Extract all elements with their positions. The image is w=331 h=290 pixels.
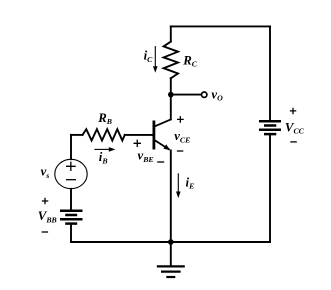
wire VBB bottom lead: [70, 225, 72, 242]
polarity plus vBE: [134, 140, 142, 147]
wire right rail lower: [269, 135, 271, 242]
polarity plus VBB: [42, 198, 49, 205]
ground: [157, 266, 185, 277]
svg-text:vCE: vCE: [174, 129, 190, 144]
transistor emitter arrowhead: [163, 144, 170, 150]
resistor RB: [83, 129, 125, 140]
node emitter/ground junction: [168, 239, 174, 245]
polarity plus vCE: [177, 116, 184, 123]
svg-text:vs: vs: [41, 165, 50, 180]
svg-text:RC: RC: [182, 53, 198, 68]
svg-text:iE: iE: [186, 175, 195, 190]
wire emitter vertical: [170, 150, 172, 242]
source vs minus: [66, 179, 76, 181]
svg-text:RB: RB: [97, 111, 112, 126]
wire vs top lead: [70, 135, 72, 159]
source vs plus: [66, 162, 76, 171]
transistor emitter diagonal: [155, 140, 170, 150]
svg-text:iB: iB: [99, 150, 108, 165]
node vO terminal: [202, 92, 207, 97]
svg-text:iC: iC: [144, 49, 154, 65]
battery VCC: [259, 121, 281, 134]
source vs circle: [55, 159, 87, 188]
wire vs bottom lead: [70, 189, 72, 210]
wire collector vertical: [170, 78, 172, 119]
transistor Q1: [154, 119, 172, 150]
transistor collector diagonal: [155, 119, 172, 126]
polarity minus vBE: [157, 161, 164, 163]
polarity minus VCC: [290, 141, 297, 143]
wire right rail upper: [269, 26, 271, 120]
wire collector branch top: [170, 26, 172, 41]
wire ground stub: [170, 242, 172, 265]
svg-text:VBB: VBB: [38, 209, 57, 224]
svg-text:vBE: vBE: [138, 149, 154, 164]
svg-text:VCC: VCC: [285, 120, 305, 135]
wire bottom rail: [71, 241, 270, 243]
svg-text:vO: vO: [211, 87, 223, 102]
polarity minus VBB: [42, 231, 49, 233]
polarity plus VCC: [290, 108, 297, 115]
resistor RC: [164, 42, 178, 79]
transistor base bar: [152, 121, 155, 150]
polarity minus vCE: [177, 150, 183, 152]
current arrow iB: [94, 147, 115, 152]
wire base lead right: [125, 134, 153, 136]
node collector/output junction: [168, 92, 174, 98]
current arrow iE: [176, 173, 181, 198]
battery VBB: [60, 211, 83, 224]
wire output tap: [171, 94, 202, 96]
wire base lead left: [71, 134, 83, 136]
wire top rail: [171, 25, 270, 27]
current arrow iC: [153, 46, 158, 73]
